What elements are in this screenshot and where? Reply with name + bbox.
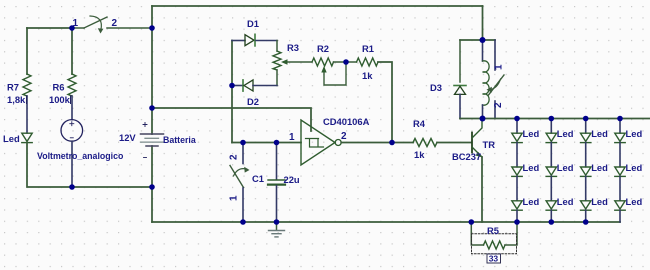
wire R1 to feedback vertical bbox=[378, 62, 392, 143]
LED Drow3 column2 bbox=[546, 201, 556, 209]
svg-text:C1: C1 bbox=[252, 173, 264, 184]
svg-text:Led: Led bbox=[523, 196, 540, 207]
LED Drow3 column1 bbox=[512, 201, 522, 209]
junction led column1 top bbox=[514, 116, 520, 122]
svg-text:Led: Led bbox=[626, 196, 643, 207]
bottom rail bbox=[152, 221, 620, 223]
svg-text:Led: Led bbox=[3, 133, 20, 144]
resistor R1 bbox=[357, 58, 379, 66]
resistor R2 bbox=[312, 58, 334, 66]
relay top bar bbox=[460, 39, 495, 41]
wire oscillator node from rail bbox=[152, 108, 311, 131]
svg-text:Led: Led bbox=[591, 162, 608, 173]
wire column1 bottom pin bbox=[516, 210, 518, 222]
wire top-left horizontal bbox=[27, 27, 72, 29]
svg-text:R3: R3 bbox=[287, 42, 299, 53]
svg-text:Led: Led bbox=[523, 128, 540, 139]
relay switch stub top bbox=[494, 40, 496, 70]
inverter U1 CD40106A triangle bbox=[301, 120, 335, 165]
junction gate input to SW2 bbox=[240, 140, 246, 146]
LED Drow2 column4 bbox=[615, 167, 625, 175]
svg-text:1k: 1k bbox=[362, 70, 373, 81]
LED Drow3 column3 bbox=[581, 201, 591, 209]
svg-text:D2: D2 bbox=[247, 96, 259, 107]
resistor R3 bbox=[276, 41, 278, 52]
svg-text:R5: R5 bbox=[487, 225, 499, 236]
battery plus mark bbox=[143, 123, 147, 127]
LED Drow2 column2 bbox=[546, 167, 556, 175]
wire column1 top pin bbox=[516, 119, 518, 134]
battery B1 plates bbox=[141, 133, 164, 135]
transistor TR collector bbox=[472, 119, 482, 139]
ground symbol bbox=[276, 222, 278, 230]
junction voltmeter return node bbox=[69, 184, 75, 190]
LED Drow2 column3 bbox=[581, 167, 591, 175]
svg-text:1,8k: 1,8k bbox=[7, 94, 26, 105]
transistor TR base bar bbox=[471, 133, 473, 153]
wire gate input bbox=[232, 142, 301, 144]
junction led column3 top bbox=[583, 116, 589, 122]
junction SW1 to supply rail bbox=[149, 25, 155, 31]
svg-text:Led: Led bbox=[591, 196, 608, 207]
junction R5 right / led column1 bottom bbox=[514, 219, 520, 225]
capacitor C1 wire top bbox=[276, 143, 278, 180]
svg-text:Led: Led bbox=[523, 162, 540, 173]
switch SW2 stub top bbox=[242, 143, 244, 164]
switch SW2 blade bbox=[230, 166, 244, 188]
relay coil L1 pin bottom bbox=[482, 105, 484, 119]
top rail bbox=[152, 5, 483, 7]
switch SW1 blade bbox=[84, 17, 107, 28]
svg-text:R7: R7 bbox=[7, 82, 19, 93]
inverter U1 bubble bbox=[335, 140, 341, 146]
junction gate output node bbox=[389, 140, 395, 146]
resistor R6 bbox=[68, 74, 76, 96]
svg-text:2: 2 bbox=[341, 131, 347, 142]
svg-text:Led: Led bbox=[557, 162, 574, 173]
resistor R5 with selection box bbox=[471, 222, 517, 254]
svg-text:2: 2 bbox=[229, 154, 240, 160]
wire column2 bottom pin bbox=[550, 210, 552, 222]
diode D1 bbox=[232, 40, 245, 42]
led column 4 bbox=[615, 119, 625, 223]
wire Led to bottom corner bbox=[27, 143, 72, 187]
wire R2 to R1 bbox=[334, 61, 357, 63]
svg-text:Led: Led bbox=[626, 128, 643, 139]
svg-text:2: 2 bbox=[112, 18, 118, 29]
relay coil L1 loops bbox=[483, 61, 490, 105]
capacitor C1 wire bottom bbox=[276, 186, 278, 222]
junction D1-D2 anode node bbox=[229, 83, 235, 89]
svg-text:R6: R6 bbox=[53, 82, 65, 93]
svg-text:2: 2 bbox=[493, 102, 504, 108]
svg-text:33: 33 bbox=[489, 254, 499, 264]
svg-text:CD40106A: CD40106A bbox=[323, 116, 370, 127]
LED Drow1 column4 bbox=[615, 133, 625, 141]
junction SW2 to ground rail bbox=[240, 219, 246, 225]
svg-text:1: 1 bbox=[229, 195, 240, 201]
wire R6 branch top bbox=[71, 28, 73, 74]
voltmeter minus mark bbox=[70, 137, 73, 139]
junction led column3 bottom bbox=[583, 219, 589, 225]
relay left branch wire bbox=[459, 40, 461, 82]
junction R2 wiper to R1 bbox=[343, 59, 349, 65]
wire bottom-left to battery bbox=[72, 186, 152, 188]
svg-text:Led: Led bbox=[557, 128, 574, 139]
svg-text:Batteria: Batteria bbox=[163, 135, 196, 145]
wire column2 top pin bbox=[550, 119, 552, 134]
relay switch actuator arc bbox=[490, 79, 501, 90]
svg-text:D1: D1 bbox=[247, 18, 259, 29]
battery minus mark bbox=[144, 157, 147, 159]
LED Drow2 column1 bbox=[512, 167, 522, 175]
wire column4 row2-row3 bbox=[619, 176, 621, 200]
wire column2 row2-row3 bbox=[550, 176, 552, 200]
voltmeter plus mark bbox=[70, 122, 74, 126]
junction battery negative node bbox=[149, 184, 155, 190]
wire column2 row1-row2 bbox=[550, 143, 552, 167]
wire R6 to voltmeter bbox=[71, 96, 73, 120]
tick mark after 1,8k bbox=[26, 96, 28, 105]
svg-text:Led: Led bbox=[626, 162, 643, 173]
inverter U1 hysteresis mark bbox=[306, 139, 324, 148]
diode D3 bbox=[454, 85, 466, 87]
wire voltmeter to bottom bbox=[71, 141, 73, 187]
svg-text:D3: D3 bbox=[430, 82, 442, 93]
wire R7 branch top bbox=[26, 28, 28, 74]
svg-text:22u: 22u bbox=[284, 174, 300, 185]
resistor R4 bbox=[413, 139, 437, 147]
voltmeter M1 Voltmetro_analogico bbox=[61, 120, 83, 142]
junction led column4 top bbox=[617, 116, 623, 122]
wire column1 row1-row2 bbox=[516, 143, 518, 167]
svg-text:1: 1 bbox=[289, 132, 295, 143]
svg-text:1: 1 bbox=[494, 64, 505, 70]
wire column1 row2-row3 bbox=[516, 176, 518, 200]
LED Drow1 column1 bbox=[512, 133, 522, 141]
junction led column2 bottom bbox=[549, 219, 555, 225]
wire column4 top pin bbox=[619, 119, 621, 134]
relay switch blade bbox=[489, 75, 505, 95]
transistor TR emitter bbox=[472, 147, 482, 157]
wire column4 row1-row2 bbox=[619, 143, 621, 167]
LED Drow1 column3 bbox=[581, 133, 591, 141]
junction relay coil to collector bbox=[480, 116, 486, 122]
junction led column2 top bbox=[549, 116, 555, 122]
LED matrix bbox=[512, 119, 625, 223]
svg-text:1: 1 bbox=[73, 18, 79, 29]
switch SW1 stub left bbox=[72, 27, 84, 29]
junction relay coil top node bbox=[480, 37, 486, 43]
junction switch SW1 pin1 node bbox=[69, 25, 75, 31]
led column 2 bbox=[546, 119, 556, 223]
LED Drow1 column2 bbox=[546, 133, 556, 141]
junction oscillator feed node bbox=[149, 105, 155, 111]
wire D-branch left vertical bbox=[231, 41, 233, 143]
tick mark after 100k bbox=[70, 96, 72, 105]
led column 3 bbox=[581, 119, 591, 223]
switch SW2 actuator arc bbox=[234, 169, 248, 176]
junction R5 left node bbox=[469, 219, 475, 225]
wire gate output bbox=[341, 142, 413, 144]
junction C1 to ground rail bbox=[274, 219, 280, 225]
switch SW1 actuator arc bbox=[90, 16, 101, 30]
right feed vertical bbox=[482, 6, 484, 40]
LED D-left bbox=[22, 133, 32, 142]
svg-text:Led: Led bbox=[591, 128, 608, 139]
capacitor C1 plates bbox=[268, 179, 285, 181]
led column 1 bbox=[512, 119, 522, 223]
wire column3 top pin bbox=[585, 119, 587, 134]
svg-text:BC237: BC237 bbox=[452, 151, 481, 162]
relay coil L1 pin top bbox=[482, 40, 484, 61]
svg-text:R4: R4 bbox=[413, 118, 426, 129]
diode D2 bbox=[232, 85, 243, 87]
switch SW1 stub right bbox=[107, 27, 152, 29]
resistor R7 bbox=[23, 74, 31, 96]
wire column3 row1-row2 bbox=[585, 143, 587, 167]
svg-text:Led: Led bbox=[557, 196, 574, 207]
svg-text:TR: TR bbox=[483, 139, 496, 150]
wire R7 to Led bbox=[26, 96, 28, 133]
svg-text:Voltmetro_analogico: Voltmetro_analogico bbox=[37, 151, 124, 161]
svg-text:R1: R1 bbox=[362, 43, 374, 54]
R3 wiper arrow bbox=[284, 61, 312, 63]
LED Drow3 column4 bbox=[615, 201, 625, 209]
relay switch stub bottom bbox=[494, 101, 496, 119]
R2 wiper arrow bbox=[324, 62, 346, 85]
value box 33 bbox=[487, 254, 501, 263]
wire column3 bottom pin bbox=[585, 210, 587, 222]
junction gate input to C1 bbox=[274, 140, 280, 146]
switch SW2 stub bottom bbox=[242, 188, 244, 222]
transistor TR emitter wire bbox=[481, 157, 483, 222]
led supply bar bbox=[460, 118, 650, 120]
svg-text:12V: 12V bbox=[119, 132, 136, 143]
svg-text:1k: 1k bbox=[414, 149, 425, 160]
wire column3 row2-row3 bbox=[585, 176, 587, 200]
main left vertical rail bbox=[151, 6, 153, 134]
wire column4 bottom pin bbox=[619, 210, 621, 222]
svg-text:R2: R2 bbox=[317, 43, 329, 54]
svg-text:100k: 100k bbox=[49, 94, 71, 105]
wire R4 to base bbox=[437, 142, 472, 144]
